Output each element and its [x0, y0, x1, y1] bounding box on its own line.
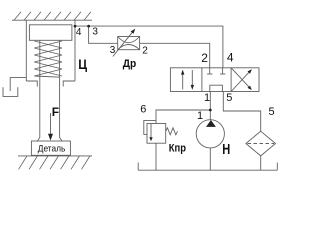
svg-text:6: 6	[140, 103, 146, 115]
svg-text:Деталь: Деталь	[38, 143, 66, 154]
svg-text:4: 4	[76, 27, 82, 38]
svg-text:3: 3	[92, 26, 98, 37]
svg-text:1: 1	[197, 110, 203, 122]
svg-text:Кпр: Кпр	[169, 142, 186, 154]
svg-text:1: 1	[204, 92, 210, 104]
svg-text:Др: Др	[123, 58, 137, 70]
svg-text:Ц: Ц	[78, 56, 87, 72]
svg-text:4: 4	[227, 50, 234, 64]
svg-text:5: 5	[226, 92, 232, 104]
svg-text:3: 3	[110, 45, 116, 56]
svg-text:5: 5	[269, 106, 275, 118]
svg-text:Н: Н	[222, 141, 230, 158]
svg-text:2: 2	[201, 51, 208, 65]
svg-text:F: F	[52, 105, 59, 119]
svg-text:2: 2	[142, 46, 148, 57]
